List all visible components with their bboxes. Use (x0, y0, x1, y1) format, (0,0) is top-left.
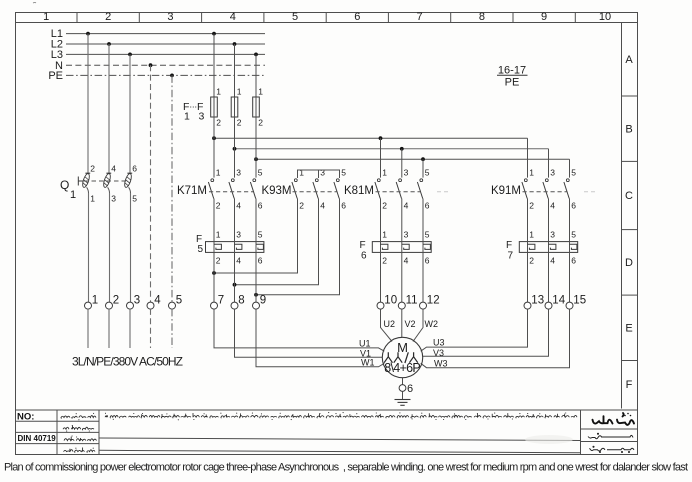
wire F7 to terminal 14 (548, 252, 550, 302)
junction L3 to Q1 drop (128, 53, 132, 57)
wire K81M pole 2 to F6 (401, 199, 403, 242)
svg-text:C: C (625, 190, 633, 202)
terminal 2 (106, 295, 120, 310)
junction bus1/F1 (212, 136, 216, 140)
wire F6 to terminal 11 (401, 252, 403, 302)
wire F6 to terminal 12 (422, 252, 424, 302)
svg-text:1: 1 (237, 87, 242, 97)
contactor K71M pole 2 (pins 3-4) (229, 168, 241, 211)
fuse F2 (231, 97, 238, 117)
contactor K91M pole 1 (pins 1-2) (522, 168, 534, 211)
svg-text:K81M: K81M (344, 185, 374, 197)
contactor K93M pole 1 (pins 1-2) (292, 168, 304, 211)
svg-text:8\4+6P: 8\4+6P (384, 361, 421, 375)
wire L3 to Q1 pole3 (129, 54, 131, 173)
wire terminal 13 to motor U3 (421, 309, 528, 351)
wire bus2 to K91M pole 2 (548, 149, 550, 178)
svg-text:7: 7 (218, 295, 224, 307)
wire phase bus 1 (214, 137, 528, 139)
wire bus3 to K91M pole 3 (569, 159, 571, 177)
overload relay F5 label (196, 234, 204, 255)
svg-text:1: 1 (184, 111, 190, 123)
fuse group label F1...F3 (183, 100, 205, 123)
overload relay F5 (206, 242, 264, 253)
svg-text:4: 4 (236, 201, 241, 211)
wire Q1 pole 3 to terminal 3 (130, 193, 132, 302)
svg-text:3: 3 (236, 168, 241, 178)
svg-text:1: 1 (216, 230, 221, 240)
svg-text:8: 8 (238, 295, 244, 307)
titleblock field tarikh (Persian) (63, 425, 94, 432)
wire phase bus 3 (256, 158, 570, 160)
svg-text:4: 4 (404, 201, 409, 211)
svg-text:B: B (625, 123, 632, 135)
wire terminal 12 to motor W2 (413, 309, 423, 342)
svg-text:D: D (625, 257, 633, 269)
svg-text:W2: W2 (425, 319, 439, 329)
wire F5 to terminal 9 (255, 252, 257, 302)
wire F5 to terminal 8 (234, 252, 236, 302)
svg-text:5: 5 (571, 230, 576, 240)
svg-text:1: 1 (90, 194, 95, 204)
wire K71M pole 2 to F5 (234, 199, 236, 242)
wire F1 to K71M pole 1 (213, 117, 215, 178)
titleblock tarrah label (Persian) (588, 433, 633, 439)
svg-text:6: 6 (341, 201, 346, 211)
switch Q1 label (60, 178, 76, 201)
wire terminal 14 to motor V3 (423, 309, 549, 356)
terminal 6 (399, 383, 413, 395)
svg-text:3: 3 (550, 230, 555, 240)
terminal 10 (377, 295, 397, 310)
titleblock sharh madar title (Persian bold) (593, 413, 635, 425)
svg-text:K71M: K71M (177, 185, 207, 197)
svg-text:W3: W3 (434, 358, 448, 368)
svg-text:16-17: 16-17 (498, 64, 526, 76)
svg-text:1: 1 (216, 168, 221, 178)
svg-text:6: 6 (361, 250, 367, 261)
junction bus3/K81M (421, 157, 425, 161)
svg-text:4: 4 (111, 163, 116, 173)
svg-text:9: 9 (541, 11, 547, 23)
terminal 4 (147, 295, 161, 310)
terminal 7 (211, 295, 225, 310)
wire terminal 10 to motor U2 (381, 309, 393, 342)
terminal 1 (85, 295, 99, 310)
svg-text:4: 4 (236, 256, 241, 266)
svg-text:5: 5 (132, 194, 137, 204)
wire K93M star bridge (298, 170, 340, 178)
wire bus1 to K91M pole 1 (527, 138, 529, 177)
svg-text:NO:: NO: (17, 411, 34, 422)
junction bus2/F2 (233, 147, 237, 151)
svg-text:6: 6 (258, 256, 263, 266)
wire terminal 6 to ground (402, 391, 404, 399)
wire terminal 9 to motor W1 (256, 309, 384, 367)
wire K71M pole 3 to F5 (255, 199, 257, 242)
switch Q1 linkage (84, 180, 127, 182)
svg-text:Plan of commissioning power el: Plan of commissioning power electromotor… (4, 462, 688, 474)
svg-text:3: 3 (320, 168, 325, 178)
contactor K81M linkage (376, 191, 421, 193)
svg-text:2: 2 (258, 118, 263, 128)
svg-text:3: 3 (404, 230, 409, 240)
svg-text:PE: PE (48, 70, 63, 82)
svg-text:5: 5 (258, 168, 263, 178)
junction PE drop (170, 74, 174, 78)
wire terminal 8 to motor V1 (235, 309, 383, 357)
svg-text:6: 6 (425, 256, 430, 266)
contactor K93M pole 2 (pins 3-4) (313, 168, 325, 211)
wire K91M pole 3 to F7 (569, 199, 571, 242)
svg-text:12: 12 (427, 295, 440, 307)
svg-text:3L/N/PE/380V AC/50HZ: 3L/N/PE/380V AC/50HZ (72, 355, 183, 369)
svg-text:1: 1 (43, 11, 49, 23)
terminal 14 (545, 295, 566, 310)
svg-text:1: 1 (92, 295, 98, 307)
wire L1 rail (66, 33, 265, 35)
svg-text:3: 3 (167, 11, 173, 23)
titleblock circuit description text (Persian) (105, 412, 577, 420)
svg-text:W1: W1 (361, 358, 375, 368)
svg-text:2: 2 (216, 118, 221, 128)
contactor K91M linkage (523, 191, 567, 193)
contactor K93M linkage (293, 191, 337, 193)
wire K93M pole 3 to node 9 (256, 199, 340, 295)
svg-text:3: 3 (236, 230, 241, 240)
wire PE rail (66, 74, 265, 76)
switch Q1 pole 2 (pins 4-3) (102, 163, 116, 203)
wire bus1 to K81M pole 1 (380, 138, 382, 177)
svg-text:F: F (626, 379, 633, 391)
contactor K81M pole 3 (pins 5-6) (417, 168, 429, 211)
svg-text:15: 15 (573, 295, 586, 307)
wire F3 to K71M pole 3 (255, 117, 257, 178)
svg-text:6: 6 (258, 201, 263, 211)
switch Q1 pole 3 (pins 6-5) (123, 163, 137, 203)
svg-text:2: 2 (216, 256, 221, 266)
titleblock field shomareh (Persian) (61, 413, 96, 421)
svg-text:3: 3 (134, 295, 140, 307)
wire below terminal 4 (150, 309, 152, 348)
svg-text:1: 1 (382, 230, 387, 240)
motor M1 body (382, 337, 422, 377)
junction L2 to F2 (233, 42, 237, 46)
svg-text:2: 2 (113, 295, 119, 307)
svg-text:3: 3 (111, 194, 116, 204)
wire Q1 pole 1 to terminal 1 (88, 193, 90, 302)
fuse F3 feed wire (255, 54, 257, 97)
wire Q1 pole 2 to terminal 2 (109, 193, 111, 302)
titleblock field standard (Persian) (64, 435, 97, 440)
wire K93M pole 1 to node 7 (214, 199, 298, 274)
wire L2 rail (66, 43, 265, 45)
svg-text:14: 14 (552, 295, 565, 307)
svg-text:Q: Q (60, 178, 69, 192)
ground (395, 400, 411, 406)
svg-text:2: 2 (216, 201, 221, 211)
svg-text:3: 3 (199, 111, 205, 123)
svg-text:5: 5 (425, 230, 430, 240)
wire PE drop to terminal 5 (171, 75, 173, 302)
wire terminal 11 to motor V2 (401, 309, 403, 337)
wire below terminal 1 (87, 309, 89, 348)
junction L1 to F1 (212, 32, 216, 36)
svg-text:DIN 40719: DIN 40719 (18, 434, 57, 443)
svg-text:5: 5 (292, 11, 298, 23)
wire F7 to terminal 15 (569, 252, 571, 302)
junction terminal 9 wire / K93M (254, 293, 258, 297)
wire K71M pole 1 to F5 (213, 199, 215, 242)
junction terminal 8 wire / K93M (233, 283, 237, 287)
wire bus2 to K81M pole 2 (401, 149, 403, 178)
svg-text:4: 4 (230, 11, 236, 23)
junction L2 to Q1 drop (107, 42, 111, 46)
wire L1 to Q1 pole1 (87, 34, 89, 173)
svg-text:2: 2 (90, 163, 95, 173)
wire below terminal 2 (108, 309, 110, 348)
svg-text:2: 2 (382, 201, 387, 211)
svg-text:2: 2 (105, 11, 111, 23)
svg-text:1: 1 (529, 168, 534, 178)
svg-text:1: 1 (70, 189, 76, 201)
svg-text:11: 11 (406, 295, 418, 307)
svg-text:4: 4 (550, 201, 555, 211)
switch Q1 pole 1 (pins 2-1) (81, 163, 95, 203)
svg-text:V2: V2 (405, 319, 416, 329)
wire N rail (66, 64, 265, 66)
svg-text:2: 2 (299, 201, 304, 211)
wire bus3 to K81M pole 3 (422, 159, 424, 177)
svg-text:2: 2 (529, 201, 534, 211)
contactor K81M pole 2 (pins 3-4) (396, 168, 408, 211)
wire L2 to Q1 pole2 (108, 44, 110, 173)
svg-text:6: 6 (571, 256, 576, 266)
svg-text:M: M (397, 340, 408, 355)
junction bus3/F3 (254, 157, 258, 161)
overload relay F6 (372, 242, 431, 253)
overload relay F7 label (506, 240, 514, 261)
wire terminal 7 to motor U1 (214, 309, 384, 351)
wire K81M pole 3 to F6 (422, 199, 424, 242)
svg-text:5: 5 (571, 168, 576, 178)
svg-text:6: 6 (407, 383, 413, 395)
svg-text:5: 5 (341, 168, 346, 178)
wire L3 rail (66, 53, 265, 55)
wire F2 to K71M pole 2 (234, 117, 236, 178)
stray scan mark (33, 2, 36, 5)
svg-text:1: 1 (382, 168, 387, 178)
stray dash after K91M linkage (584, 191, 596, 193)
fuse F1 feed wire (213, 34, 215, 97)
svg-text:5: 5 (198, 244, 204, 255)
terminal 5 (169, 295, 183, 310)
wire terminal 15 to motor W3 (421, 309, 570, 368)
svg-text:...: ... (190, 100, 198, 110)
svg-text:4: 4 (154, 295, 161, 307)
terminal 3 (127, 295, 141, 310)
wire N drop to terminal 4 (150, 65, 152, 302)
junction terminal 7 wire / K93M (212, 271, 216, 275)
svg-text:8: 8 (479, 11, 485, 23)
svg-text:A: A (625, 54, 633, 66)
switch Q1 handle (78, 177, 83, 186)
svg-text:7: 7 (416, 11, 422, 23)
svg-text:E: E (625, 322, 632, 334)
svg-text:1: 1 (299, 168, 304, 178)
svg-text:5: 5 (425, 168, 430, 178)
stray dash after K81M linkage (437, 191, 448, 193)
wire K91M pole 1 to F7 (527, 199, 529, 242)
contactor K81M pole 1 (pins 1-2) (375, 168, 387, 211)
junction bus2/K81M (400, 147, 404, 151)
terminal 15 (566, 295, 586, 310)
fuse F2 feed wire (234, 44, 236, 97)
junction N drop (149, 63, 153, 67)
junction bus1/K81M (379, 136, 383, 140)
svg-text:1: 1 (529, 230, 534, 240)
wire K81M pole 1 to F6 (380, 199, 382, 242)
motor winding symbols YY/Y (384, 352, 418, 363)
terminal 9 (253, 295, 267, 310)
svg-text:13: 13 (531, 295, 544, 307)
contactor K91M pole 3 (pins 5-6) (564, 168, 576, 211)
svg-text:K91M: K91M (491, 185, 521, 197)
terminal 8 (231, 295, 245, 310)
svg-text:5: 5 (176, 295, 182, 307)
contactor K71M pole 1 (pins 1-2) (208, 168, 220, 211)
wire below terminal 3 (129, 309, 131, 348)
svg-text:4: 4 (550, 256, 555, 266)
svg-text:K93M: K93M (261, 185, 291, 197)
titleblock bazbin label (Persian) (590, 446, 635, 452)
wire F5 to terminal 7 (213, 252, 215, 302)
svg-text:2: 2 (529, 256, 534, 266)
contactor K71M linkage (209, 191, 253, 193)
svg-text:6: 6 (571, 201, 576, 211)
titleblock field zaman ejra (Persian) (64, 448, 95, 453)
wire motor to terminal 6 (402, 378, 404, 385)
overload relay F6 label (360, 240, 368, 261)
svg-text:6: 6 (354, 11, 360, 23)
terminal 12 (420, 295, 440, 310)
svg-text:3: 3 (404, 168, 409, 178)
svg-text:5: 5 (258, 230, 263, 240)
svg-text:U2: U2 (384, 319, 396, 329)
wire F7 to terminal 13 (527, 252, 529, 302)
svg-text:1: 1 (216, 87, 221, 97)
wire phase bus 2 (235, 148, 549, 150)
terminal 13 (524, 295, 544, 310)
junction L3 to F3 (254, 53, 258, 57)
svg-text:3: 3 (550, 168, 555, 178)
svg-text:6: 6 (132, 163, 137, 173)
contactor K71M pole 3 (pins 5-6) (250, 168, 262, 211)
titleblock erased smudge (525, 435, 573, 444)
overload relay F7 (519, 242, 577, 253)
svg-text:9: 9 (260, 295, 266, 307)
fuse F1 (211, 97, 218, 117)
svg-text:7: 7 (508, 250, 514, 261)
wire K93M pole 2 to node 8 (235, 199, 319, 285)
svg-text:V3: V3 (433, 348, 444, 358)
wire below terminal 5 (171, 309, 173, 348)
svg-text:2: 2 (237, 118, 242, 128)
svg-text:10: 10 (384, 295, 397, 307)
junction L1 to Q1 drop (86, 32, 90, 36)
terminal 11 (398, 295, 417, 310)
svg-text:4: 4 (320, 201, 325, 211)
contactor K91M pole 2 (pins 3-4) (543, 168, 555, 211)
svg-text:U1: U1 (359, 338, 371, 348)
wire F6 to terminal 10 (380, 252, 382, 302)
fuse F3 (253, 97, 260, 117)
svg-text:6: 6 (425, 201, 430, 211)
svg-text:1: 1 (258, 87, 263, 97)
svg-text:2: 2 (382, 256, 387, 266)
contactor K93M pole 3 (pins 5-6) (334, 168, 346, 211)
net 16-17/PE note (497, 64, 528, 88)
svg-text:U3: U3 (433, 337, 445, 347)
wire K91M pole 2 to F7 (548, 199, 550, 242)
svg-text:PE: PE (505, 77, 520, 89)
svg-text:10: 10 (599, 11, 611, 23)
svg-text:4: 4 (404, 256, 409, 266)
